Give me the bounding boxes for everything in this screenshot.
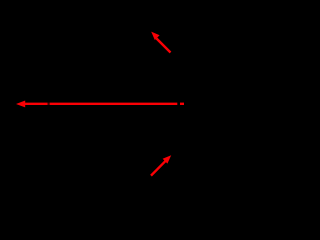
arrowhead of lower-right vector (points up-right) bbox=[163, 155, 172, 163]
wire: upper-right diagonal red vector arrow pointing up-left (shaft) bbox=[156, 38, 170, 52]
arrowhead of horizontal left-pointing vector bbox=[16, 101, 25, 108]
wire: long horizontal red vector arrow pointing left (shaft segment right) bbox=[25, 103, 185, 105]
wire: lower-right diagonal red vector arrow pointing up-right (shaft) bbox=[151, 161, 166, 176]
arrowhead of upper-right vector (points up-left) bbox=[151, 32, 159, 40]
